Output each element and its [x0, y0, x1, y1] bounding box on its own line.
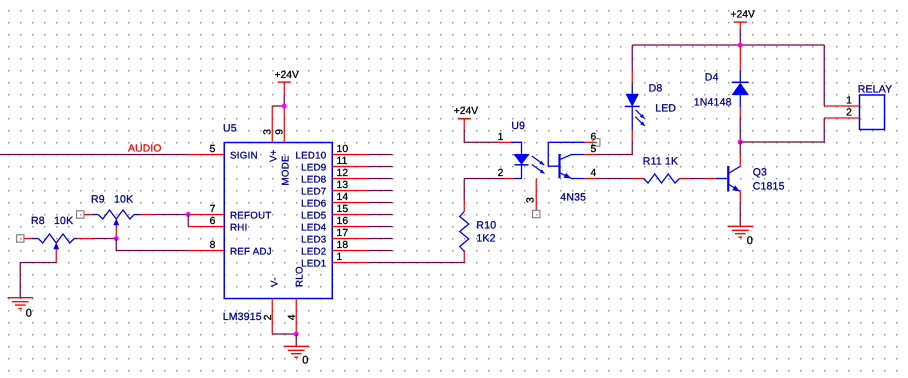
wire R11 to Q3 base [689, 178, 705, 180]
label R11 1K [643, 155, 678, 167]
pin number 5 of U9 [591, 144, 597, 155]
svg-text:3: 3 [526, 197, 537, 203]
wire collector node to Q3 [739, 142, 741, 154]
pin number 16 [337, 216, 349, 227]
svg-text:LED2: LED2 [301, 246, 326, 257]
value 10K of R8 [54, 215, 73, 227]
wire U9 pin4 to R11 [596, 178, 634, 180]
light arrow 2 of D8 [635, 117, 645, 126]
wire R8 wiper down [55, 249, 57, 263]
wire +24V stem to rail [739, 29, 741, 45]
value LED of D8 [655, 102, 676, 114]
pin number 4 of U9 [591, 168, 597, 179]
pin number 3 of U9 [526, 197, 537, 203]
unconnected pin marker U9 pin 6 [593, 139, 600, 146]
svg-text:R10: R10 [476, 220, 496, 232]
pin number 9 [275, 129, 286, 135]
wire D8 up to +24V rail [631, 45, 633, 71]
pin name REF ADJ [230, 246, 272, 257]
wire R8 to junction [93, 238, 117, 240]
svg-text:14: 14 [337, 192, 349, 203]
unconnected pin marker R9 left [77, 211, 84, 218]
unconnected pin marker U9 pin 3 [533, 210, 540, 217]
pin number 1 [337, 252, 343, 263]
pin number 1 of U9 [498, 132, 504, 143]
pin number 5 [210, 144, 216, 155]
svg-text:LM3915: LM3915 [223, 311, 262, 323]
pin number 13 [337, 180, 349, 191]
wiper arrow of R9 [114, 219, 119, 225]
pin 6 RHI of U5 [188, 226, 224, 228]
pin name LED2 [301, 246, 326, 257]
svg-text:LED9: LED9 [301, 162, 326, 173]
pin name LED3 [301, 234, 326, 245]
pin name LED8 [301, 174, 326, 185]
ground under U5 [284, 346, 309, 357]
node junction +24V/V+/MODE [282, 104, 287, 109]
label 0 ground under R8 [26, 307, 32, 319]
wire R9 wiper down [115, 225, 117, 239]
svg-text:+24V: +24V [454, 106, 478, 117]
pin 9 MODE of U5 [283, 106, 285, 143]
pin 10 LED10 of U5 [332, 154, 392, 156]
wire R9 to pin7 junction [152, 214, 188, 216]
value 1N4148 of D4 [694, 96, 732, 108]
light arrow 1 of D8 [636, 110, 645, 119]
wire +24V stem near U9 [463, 119, 465, 130]
wire collector node to RELAY pin 2 [740, 118, 824, 142]
connector RELAY body [860, 95, 885, 130]
svg-text:1N4148: 1N4148 [694, 96, 732, 108]
pin 16 LED4 of U5 [332, 226, 392, 228]
wire junction to REF ADJ [116, 239, 188, 251]
value C1815 of Q3 [753, 180, 785, 192]
wire +24V to opto pin 1 [464, 129, 500, 142]
svg-text:LED10: LED10 [295, 150, 326, 161]
pin 3 V+ of U5 [271, 106, 273, 143]
label D4 [705, 72, 719, 84]
wire R10 up to opto pin2 net [463, 179, 465, 202]
pin number 14 [337, 192, 349, 203]
svg-text:U9: U9 [511, 120, 525, 132]
svg-text:15: 15 [337, 204, 349, 215]
pin 1 LED1 of U5 [332, 262, 368, 264]
pin number 8 [210, 240, 216, 251]
svg-text:8: 8 [210, 240, 216, 251]
pin 7 REFOUT of U5 [188, 214, 224, 216]
node junction collector/D4/relay [738, 140, 743, 145]
svg-text:2: 2 [498, 168, 504, 179]
label U5 [223, 123, 237, 135]
svg-text:RHI: RHI [230, 222, 248, 233]
value 10K of R9 [114, 194, 133, 206]
svg-text:5: 5 [210, 144, 216, 155]
label +24V top [731, 10, 755, 21]
connector RELAY pin 2 [824, 117, 859, 119]
svg-text:R11 1K: R11 1K [643, 155, 678, 167]
pin number 4 [287, 314, 298, 320]
label LM3915 [223, 311, 262, 323]
pin number 3 [263, 129, 274, 135]
label 0 ground under Q3 [747, 235, 753, 247]
label R8 [31, 215, 45, 227]
svg-text:10: 10 [337, 144, 349, 155]
net label AUDIO [128, 144, 162, 155]
label +24V near U9 [454, 106, 478, 117]
pin name RLO [294, 266, 305, 287]
node junction +24V rail / D4 [738, 43, 743, 48]
ground under R8 [8, 298, 33, 309]
svg-text:16: 16 [337, 216, 349, 227]
pin name REFOUT [230, 210, 272, 221]
wire D4 to collector node [739, 117, 741, 142]
svg-text:6: 6 [591, 132, 597, 143]
pin 5 SIGIN of U5 [188, 154, 224, 156]
svg-text:D4: D4 [705, 72, 719, 84]
svg-text:1: 1 [846, 96, 852, 107]
IC U5 LM3915 body [224, 143, 332, 299]
wire U9 pin5 to D8 branch [596, 154, 632, 156]
pin number 12 [337, 168, 349, 179]
pin number 2 of RELAY [846, 108, 852, 119]
svg-text:0: 0 [26, 307, 32, 319]
power +24V symbol top [734, 21, 747, 23]
pin number 10 [337, 144, 349, 155]
pin 4 RLO of U5 [295, 299, 297, 335]
svg-text:SIGIN: SIGIN [230, 150, 258, 161]
svg-text:2: 2 [263, 314, 274, 320]
pin 15 LED5 of U5 [332, 214, 392, 216]
diode D4 1N4148 [732, 45, 749, 117]
svg-text:LED5: LED5 [301, 210, 326, 221]
light arrow 2 of U9 [532, 165, 545, 174]
pin name V+ [268, 149, 279, 162]
pin name LED6 [301, 198, 326, 209]
svg-text:LED3: LED3 [301, 234, 326, 245]
diode D8 LED [625, 71, 640, 155]
wire Q3 emitter to ground [739, 202, 741, 227]
svg-text:0: 0 [302, 355, 308, 367]
svg-text:R9: R9 [91, 194, 105, 206]
resistor R11 [634, 174, 690, 183]
light arrow 1 of U9 [532, 156, 544, 165]
pin name V- [269, 277, 280, 287]
node junction R8/R9 wiper [114, 236, 119, 241]
svg-text:3: 3 [263, 129, 274, 135]
svg-text:RLO: RLO [294, 266, 305, 287]
svg-text:MODE: MODE [280, 155, 291, 186]
resistor R10 [460, 202, 469, 263]
pin number 11 [337, 156, 348, 167]
optocoupler U9 phototransistor [548, 142, 584, 178]
pin name SIGIN [230, 150, 258, 161]
svg-text:10K: 10K [114, 194, 133, 206]
svg-text:17: 17 [337, 228, 349, 239]
svg-text:LED6: LED6 [301, 198, 326, 209]
label Q3 [753, 166, 767, 178]
wire +24V stem above U5 [283, 82, 285, 94]
svg-text:4: 4 [287, 314, 298, 320]
pin 12 LED8 of U5 [332, 178, 392, 180]
pin name LED7 [301, 186, 326, 197]
svg-text:Q3: Q3 [753, 166, 767, 178]
pin 11 LED9 of U5 [332, 166, 392, 168]
svg-text:13: 13 [337, 180, 349, 191]
svg-text:1: 1 [498, 132, 504, 143]
label 0 ground under U5 [302, 355, 308, 367]
wire +24V to MODE junction [283, 94, 285, 106]
power +24V symbol near U9 [458, 118, 471, 120]
svg-text:10K: 10K [54, 215, 73, 227]
wire to ground under U5 [295, 334, 297, 346]
wire rail down to RELAY pin 1 [823, 45, 825, 106]
svg-text:2: 2 [846, 108, 852, 119]
pin 17 LED3 of U5 [332, 238, 392, 240]
optocoupler U9 pin 4 (emitter) [585, 178, 597, 180]
svg-text:7: 7 [210, 204, 216, 215]
pin number 6 of U9 [591, 132, 597, 143]
resistor R8 [24, 234, 93, 243]
svg-text:+24V: +24V [275, 70, 299, 81]
pin number 6 [210, 216, 216, 227]
pin name LED10 [295, 150, 326, 161]
wire junction down to RHI [187, 215, 189, 227]
label RELAY [858, 83, 893, 95]
svg-text:11: 11 [337, 156, 348, 167]
svg-text:D8: D8 [649, 83, 663, 95]
svg-text:9: 9 [275, 129, 286, 135]
svg-text:REFOUT: REFOUT [230, 210, 272, 221]
connector RELAY pin 1 [824, 105, 859, 107]
wire V- to RLO [272, 333, 296, 335]
label R10 [476, 220, 496, 232]
pin number 2 of U9 [498, 168, 504, 179]
svg-text:LED8: LED8 [301, 174, 326, 185]
svg-text:18: 18 [337, 240, 349, 251]
svg-text:V-: V- [269, 277, 280, 287]
svg-text:U5: U5 [223, 123, 237, 135]
svg-text:+24V: +24V [731, 10, 755, 21]
pin name LED9 [301, 162, 326, 173]
svg-text:V+: V+ [268, 149, 279, 162]
pin 8 REF ADJ of U5 [188, 250, 224, 252]
wire +24V stem top [739, 22, 741, 29]
transistor Q3 C1815 [705, 154, 740, 201]
unconnected pin marker R8 left [17, 235, 24, 242]
pin number 2 [263, 314, 274, 320]
svg-text:REF ADJ: REF ADJ [230, 246, 272, 257]
resistor R9 [84, 210, 152, 219]
optocoupler U9 pin 2 [504, 178, 514, 180]
svg-text:12: 12 [337, 168, 349, 179]
wire to opto pin 2 [464, 178, 504, 180]
value 1K2 of R10 [476, 233, 495, 245]
svg-text:4: 4 [591, 168, 597, 179]
wire R8 wiper to ground [20, 263, 56, 298]
pin 2 V- of U5 [271, 299, 273, 335]
wire LED1 to R10 [368, 261, 464, 264]
optocoupler U9 pin 1 [500, 141, 511, 143]
pin number 18 [337, 240, 349, 251]
optocoupler U9 LED [511, 142, 529, 178]
node junction pin7/pin6 [186, 212, 191, 217]
pin name LED4 [301, 222, 327, 233]
pin name LED5 [301, 210, 326, 221]
svg-text:0: 0 [747, 235, 753, 247]
wire +24V rail [632, 44, 824, 46]
pin number 17 [337, 228, 349, 239]
wiper arrow of R8 [54, 243, 59, 249]
svg-text:LED: LED [655, 102, 676, 114]
pin name MODE [280, 155, 291, 186]
svg-text:LED7: LED7 [301, 186, 326, 197]
value 4N35 of U9 [560, 192, 586, 204]
svg-text:AUDIO: AUDIO [128, 144, 162, 155]
wire AUDIO net [0, 154, 188, 156]
ground under Q3 [728, 226, 753, 237]
node junction V-/RLO [294, 332, 299, 337]
svg-text:R8: R8 [31, 215, 45, 227]
optocoupler U9 pin 5 (collector) [585, 154, 597, 156]
pin number 1 of RELAY [846, 96, 852, 107]
svg-text:LED4: LED4 [301, 222, 327, 233]
svg-text:5: 5 [591, 144, 597, 155]
pin name RHI [230, 222, 248, 233]
pin number 7 [210, 204, 216, 215]
label D8 [649, 83, 663, 95]
pin 13 LED7 of U5 [332, 190, 392, 192]
label +24V above U5 [275, 70, 299, 81]
optocoupler U9 pin 6 (base) [585, 141, 597, 143]
power +24V symbol above U5 [278, 81, 291, 83]
pin 14 LED6 of U5 [332, 202, 392, 204]
optocoupler U9 pin 3 [535, 179, 537, 211]
pin number 15 [337, 204, 349, 215]
svg-text:4N35: 4N35 [560, 192, 586, 204]
svg-text:6: 6 [210, 216, 216, 227]
label R9 [91, 194, 105, 206]
svg-text:C1815: C1815 [753, 180, 785, 192]
pin name LED1 [301, 258, 326, 269]
svg-text:RELAY: RELAY [858, 83, 893, 95]
label U9 [511, 120, 525, 132]
wire junction to V+ pin [272, 105, 284, 107]
pin 18 LED2 of U5 [332, 250, 392, 252]
svg-text:1K2: 1K2 [476, 233, 495, 245]
svg-text:1: 1 [337, 252, 343, 263]
